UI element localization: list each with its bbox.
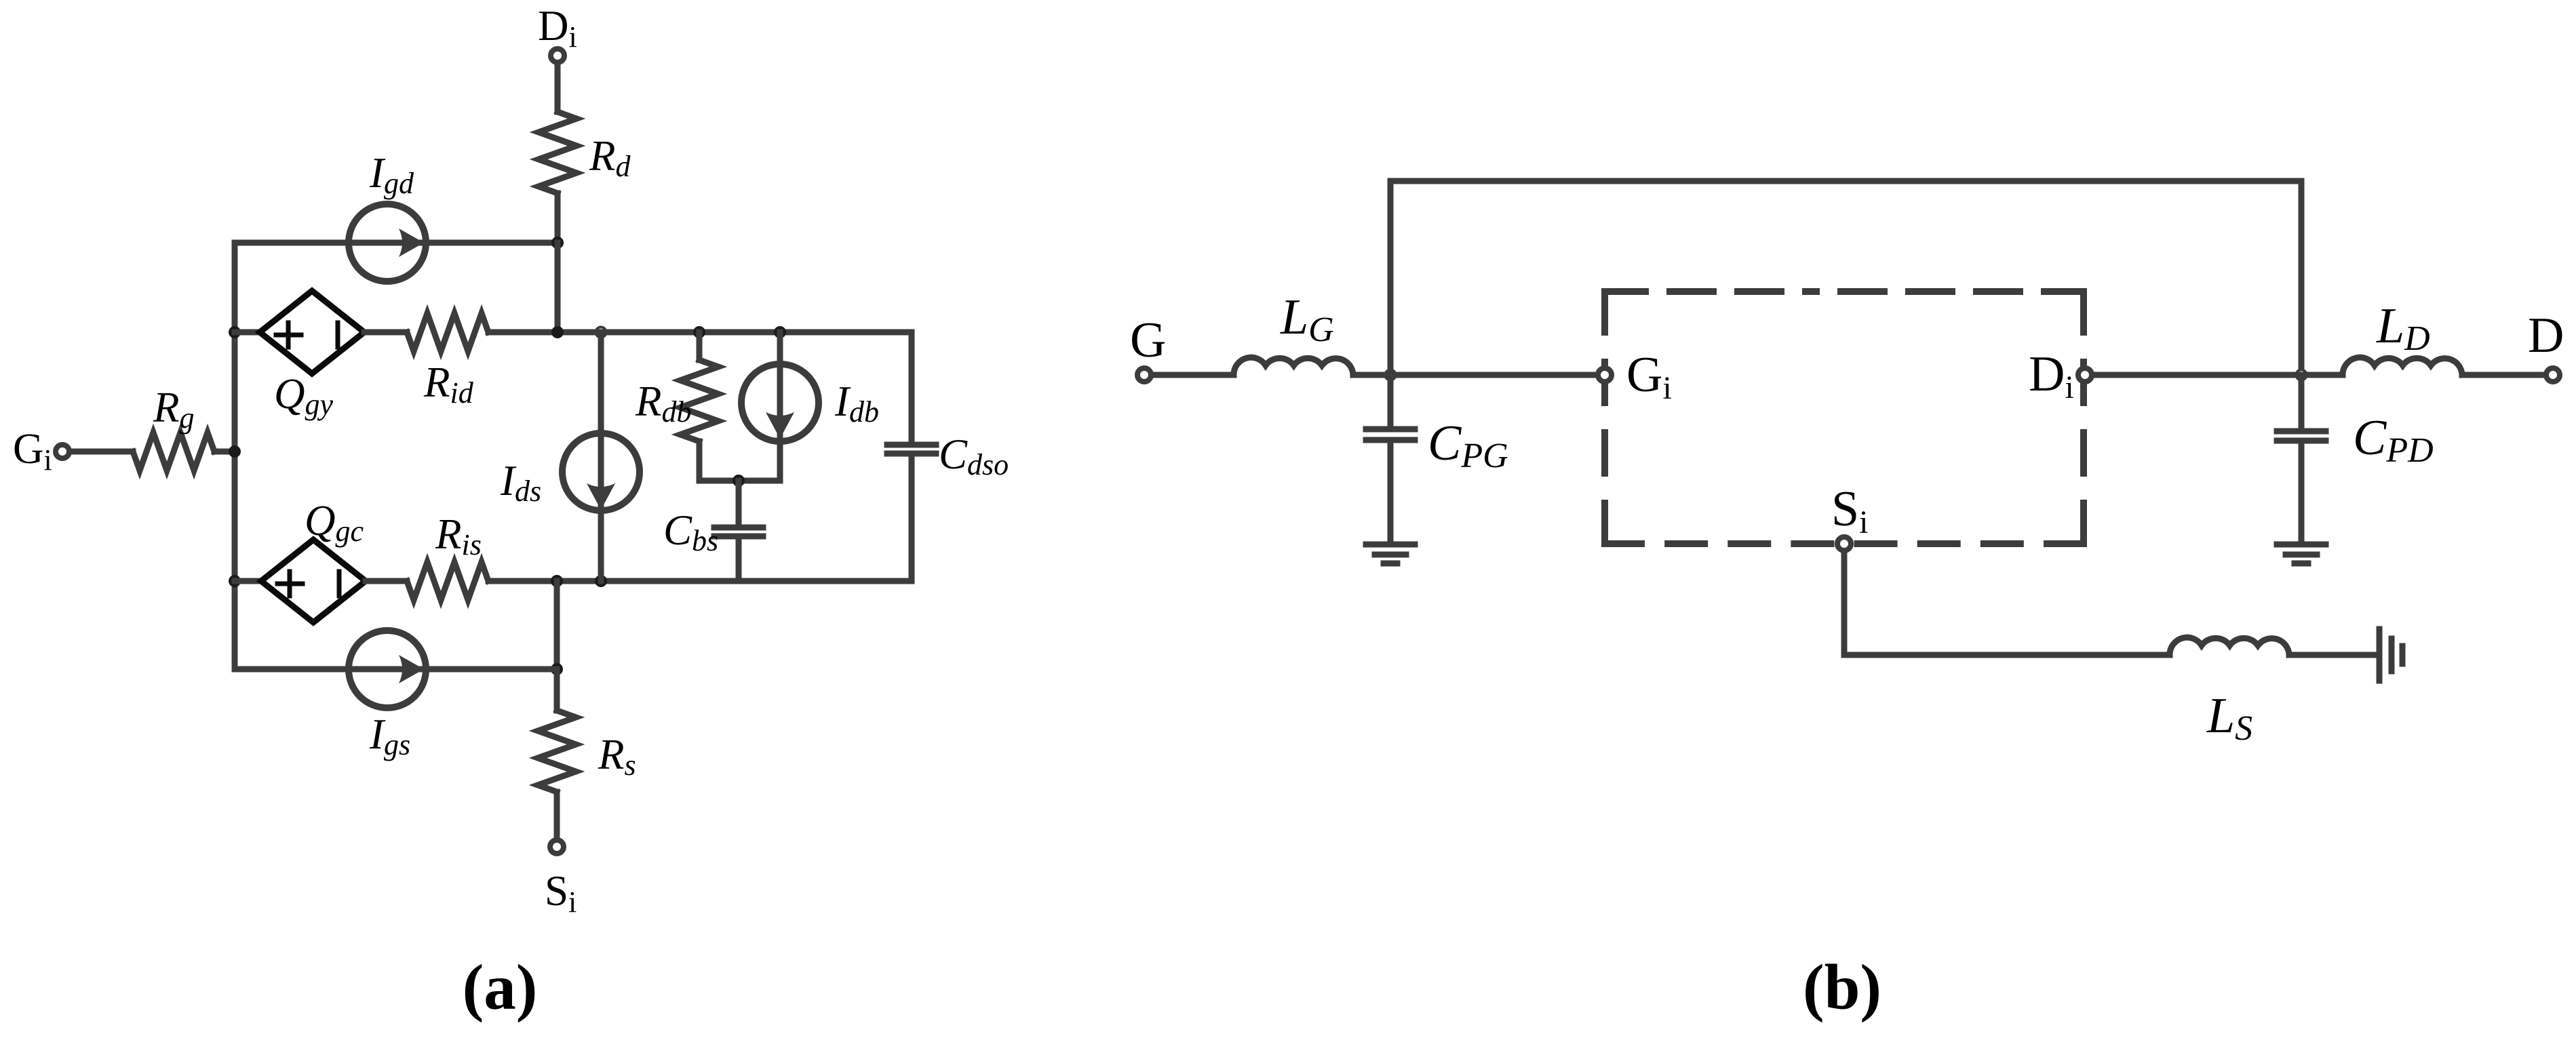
wire Qgc to Ris: [366, 578, 407, 584]
wire feedback right vertical: [2299, 181, 2305, 375]
terminal Di (a): [551, 49, 564, 62]
inductor LS: [2170, 637, 2289, 655]
resistor Ris: [407, 562, 488, 600]
wire Qgy to Rid: [364, 329, 407, 336]
wire Gi to Rg: [71, 449, 133, 455]
current source Ids: [562, 433, 640, 511]
wire feedback top: [1390, 178, 2301, 184]
wire Rs to Si: [554, 792, 560, 838]
junction dot Rid row: [551, 326, 564, 338]
wire Rd vertical to Rid row: [555, 243, 561, 332]
wire Ris row to box bottom: [488, 578, 912, 584]
wire Igs row: [235, 666, 557, 673]
wire LG to Gi: [1353, 372, 1595, 378]
ground CPD: [2277, 544, 2326, 563]
terminal Gi (b): [1598, 368, 1612, 382]
wire G to LG: [1153, 372, 1234, 378]
wire Idb vertical: [777, 332, 783, 481]
junction dot Qgc row: [229, 575, 241, 587]
wire left vertical: [232, 243, 238, 669]
wire Si down: [1841, 553, 1848, 655]
wire Rid to box: [488, 329, 601, 336]
capacitor CPG: [1366, 429, 1415, 542]
capacitor CPD: [2277, 375, 2326, 542]
capacitor Cbs: [714, 481, 763, 581]
resistor Rs: [538, 711, 576, 792]
junction dot Igd-Rd: [551, 237, 564, 249]
terminal Gi (a): [56, 445, 69, 458]
wire stub to Qgy: [235, 329, 260, 336]
svg-text:G: G: [1130, 313, 1166, 368]
resistor Rid: [407, 313, 488, 351]
dashed box right: [2080, 292, 2087, 544]
ground LS right-facing: [2379, 629, 2402, 681]
junction dot Rg: [229, 445, 241, 458]
node circle small CPD junction: [2297, 370, 2307, 380]
current source Igd: [349, 204, 426, 281]
wire CPG vertical upper: [1388, 181, 1394, 429]
junction dot Idb top: [774, 326, 786, 338]
svg-text:(a): (a): [463, 951, 538, 1023]
wire Igs junction to Rs: [554, 669, 560, 711]
wire Rs branch vertical: [554, 581, 560, 669]
terminal Si (a): [550, 840, 564, 854]
resistor Rd: [539, 112, 577, 193]
terminal Si (b): [1837, 537, 1851, 551]
junction dot Rs top: [551, 575, 563, 587]
wire Rdb bottom stub: [697, 441, 703, 481]
wire Di to Rd: [555, 64, 561, 112]
ground CPG: [1366, 544, 1415, 563]
resistor Rdb: [680, 360, 718, 441]
inductor LD: [2343, 357, 2462, 375]
terminal G: [1137, 368, 1151, 382]
wire Rd to Igd row: [555, 193, 561, 243]
terminal D: [2546, 368, 2560, 382]
wire Rdb-Idb bottom bar: [699, 478, 780, 484]
wire LD to D: [2462, 372, 2544, 378]
current source Igs: [349, 631, 426, 708]
junction dot Rdb top: [693, 326, 705, 338]
dependent source Qgy diamond: [260, 291, 364, 374]
junction dot Igs row: [551, 663, 563, 675]
wire stub to Qgc: [235, 578, 261, 584]
wire Rg to vertical: [214, 449, 235, 455]
resistor Rg: [133, 433, 214, 471]
node circle small CPG junction: [1386, 370, 1396, 380]
dashed box intrinsic transistor top: [1605, 288, 2084, 295]
junction dot Ids bottom: [595, 575, 607, 587]
dependent source Qgc diamond: [261, 540, 366, 622]
node circle small at Ids top: [596, 327, 606, 338]
svg-text:D: D: [2528, 308, 2564, 363]
current source Idb: [741, 364, 819, 441]
inductor LG: [1234, 357, 1353, 375]
junction dot Qgy row: [229, 326, 241, 338]
wire Igd row: [235, 240, 558, 246]
svg-text:(b): (b): [1803, 951, 1881, 1023]
capacitor Cdso right side: [887, 332, 936, 581]
dashed box bottom: [1605, 540, 2084, 547]
wire LS row: [1844, 652, 2170, 658]
dashed box left: [1601, 292, 1608, 544]
wire Rdb top stub: [697, 332, 703, 360]
wire LS to ground: [2289, 652, 2379, 658]
wire box top: [601, 329, 912, 336]
junction dot Cbs top: [733, 475, 745, 487]
wire Ids vertical: [598, 332, 604, 581]
wire Di to LD: [2094, 372, 2343, 378]
terminal Di (b): [2078, 368, 2092, 382]
